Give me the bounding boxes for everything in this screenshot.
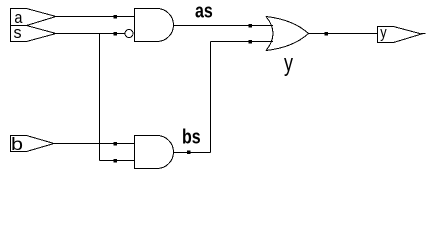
svg-text:as: as <box>195 0 213 22</box>
svg-text:bs: bs <box>182 126 201 148</box>
svg-text:b: b <box>11 135 23 155</box>
svg-text:y: y <box>380 24 387 42</box>
svg-text:s: s <box>14 23 22 42</box>
svg-text:y: y <box>284 51 293 77</box>
